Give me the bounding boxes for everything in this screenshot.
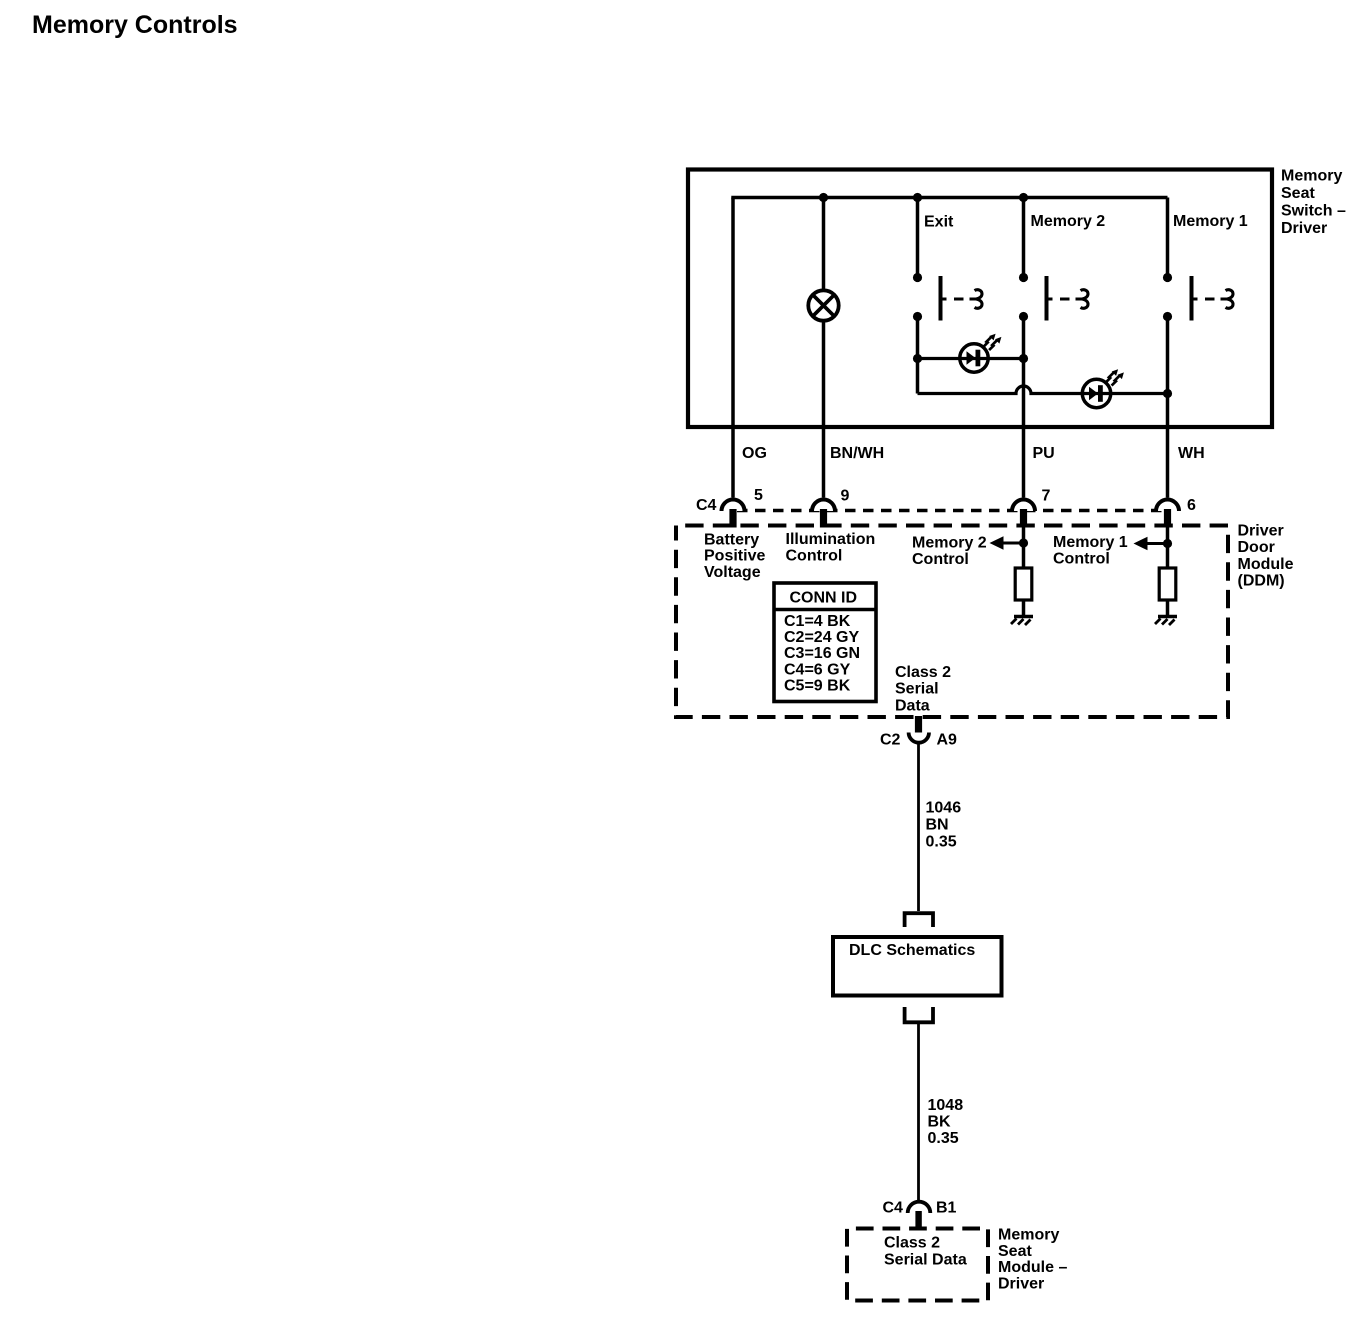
connector pin 9 [812, 500, 835, 528]
label Memory Seat Module - Driver [998, 1227, 1067, 1293]
svg-text:Control: Control [912, 551, 969, 568]
label Memory 2 Control [912, 535, 987, 569]
label Driver Door Module (DDM) [1238, 523, 1294, 590]
svg-text:Serial Data: Serial Data [884, 1252, 967, 1269]
wire WH to resistor [1166, 527, 1170, 568]
junction dot LED D2 wire at Memory 1 [1163, 389, 1172, 398]
svg-text:1048: 1048 [928, 1097, 964, 1114]
svg-text:Class 2: Class 2 [884, 1235, 940, 1252]
svg-text:Memory: Memory [998, 1227, 1059, 1244]
svg-text:C4: C4 [696, 497, 717, 514]
wire: LED D2 horizontal with hop over Memory 2 wire [918, 386, 1168, 393]
connector pin 6 [1156, 500, 1179, 528]
svg-text:Illumination: Illumination [786, 531, 876, 548]
wire PU to resistor [1022, 527, 1026, 568]
LED D2 (Memory 1 indicator) [1082, 369, 1124, 407]
svg-text:Module –: Module – [998, 1259, 1067, 1276]
DLC Schematics box [833, 937, 1002, 996]
svg-text:Serial: Serial [895, 681, 939, 698]
wire: Memory 1 switch vertical top [1166, 198, 1170, 278]
svg-text:C5=9 BK: C5=9 BK [784, 678, 851, 695]
wire: battery rail left vertical [731, 198, 735, 498]
svg-text:C4=6 GY: C4=6 GY [784, 661, 851, 678]
svg-text:6: 6 [1187, 497, 1196, 514]
wire label 1048 BK 0.35 [928, 1097, 964, 1147]
label Battery Positive Voltage [704, 532, 765, 582]
label Memory Seat Switch - Driver [1281, 168, 1346, 238]
off-page bracket top [905, 913, 933, 927]
switch SW Memory 1 armature [1192, 276, 1234, 321]
label Illumination Control [786, 531, 876, 565]
svg-text:Control: Control [786, 548, 843, 565]
svg-text:9: 9 [841, 488, 850, 505]
svg-text:C1=4 BK: C1=4 BK [784, 613, 851, 630]
wire 1048 BK [917, 1024, 920, 1202]
svg-text:BK: BK [928, 1114, 952, 1131]
svg-text:Memory 1: Memory 1 [1173, 213, 1248, 230]
wire: LED D1 horizontal [918, 357, 1024, 360]
svg-text:A9: A9 [937, 732, 958, 749]
LED D1 (Exit/Memory 2 indicator) [960, 334, 1002, 372]
junction dots LED D1 wire [913, 354, 922, 363]
svg-text:C2: C2 [880, 732, 901, 749]
node dot Memory 2 control [1019, 538, 1028, 547]
svg-text:(DDM): (DDM) [1238, 573, 1285, 590]
svg-text:Driver: Driver [1238, 523, 1284, 540]
wire: Exit switch vertical bottom [916, 317, 920, 394]
junction dots switch lower contacts [913, 312, 922, 321]
svg-text:DLC Schematics: DLC Schematics [849, 942, 975, 959]
svg-text:Seat: Seat [1281, 185, 1315, 202]
svg-text:Memory Controls: Memory Controls [32, 11, 238, 39]
svg-text:BN/WH: BN/WH [830, 445, 884, 462]
svg-text:Control: Control [1053, 551, 1110, 568]
Memory Seat Module dashed box [847, 1229, 988, 1301]
connector C4/B1 arc [908, 1202, 931, 1213]
svg-text:Driver: Driver [1281, 220, 1327, 237]
node dot Memory 1 control [1163, 539, 1172, 548]
svg-text:0.35: 0.35 [928, 1130, 959, 1147]
Driver Door Module dashed box [676, 526, 1228, 718]
connector C2/A9 cup [909, 733, 929, 743]
svg-text:Positive: Positive [704, 548, 765, 565]
label Class 2 Serial Data (MSM) [884, 1235, 967, 1269]
resistor R1 [1015, 568, 1032, 600]
svg-text:Seat: Seat [998, 1243, 1032, 1260]
svg-text:Module: Module [1238, 556, 1294, 573]
wire: Exit switch vertical top [916, 198, 920, 278]
svg-text:Memory 1: Memory 1 [1053, 534, 1128, 551]
svg-text:Class 2: Class 2 [895, 664, 951, 681]
junction dots top rail [819, 193, 828, 202]
arrow Memory 2 control [990, 536, 1024, 550]
ground G1 [1011, 617, 1033, 626]
svg-text:Data: Data [895, 698, 930, 715]
label Class 2 Serial Data (DDM) [895, 664, 951, 715]
wire: Memory 2 switch vertical top [1022, 198, 1026, 278]
svg-text:BN: BN [926, 817, 949, 834]
svg-text:Voltage: Voltage [704, 564, 761, 581]
svg-text:0.35: 0.35 [926, 834, 957, 851]
svg-text:Driver: Driver [998, 1275, 1044, 1292]
svg-text:C4: C4 [883, 1200, 904, 1217]
svg-text:C3=16 GN: C3=16 GN [784, 645, 860, 662]
connector row dashed line [737, 509, 1162, 513]
arrow Memory 1 control [1134, 537, 1168, 551]
wire resistor R2 to ground [1166, 600, 1170, 617]
lamp: illumination bulb [808, 290, 838, 320]
wire label 1046 BN 0.35 [926, 800, 962, 851]
svg-text:Switch –: Switch – [1281, 203, 1346, 220]
wire: Memory 1 switch vertical bottom [1166, 317, 1170, 498]
ground G2 [1155, 617, 1177, 626]
CONN ID table [774, 583, 876, 702]
svg-text:B1: B1 [936, 1200, 957, 1217]
switch SW Memory 2 armature [1047, 276, 1089, 321]
connector C4/B1 stub [915, 1211, 921, 1227]
resistor R2 [1159, 568, 1176, 600]
svg-text:CONN ID: CONN ID [790, 590, 858, 607]
svg-text:7: 7 [1042, 488, 1051, 505]
memory seat switch box [688, 170, 1272, 428]
junction dots switch upper contacts [913, 273, 922, 282]
svg-text:OG: OG [742, 445, 767, 462]
wire 1046 BN [917, 744, 920, 912]
connector pin 7 [1012, 500, 1035, 528]
svg-text:Exit: Exit [924, 214, 954, 231]
svg-text:Door: Door [1238, 539, 1275, 556]
svg-text:Battery: Battery [704, 532, 759, 549]
svg-text:Memory 2: Memory 2 [1031, 213, 1106, 230]
connector C2/A9 stub [915, 716, 922, 733]
wire: top common rail [731, 196, 1167, 200]
svg-text:C2=24 GY: C2=24 GY [784, 629, 859, 646]
wire: Memory 2 switch vertical bottom [1022, 317, 1026, 498]
wire: illumination lamp vertical [822, 198, 826, 498]
svg-text:Memory 2: Memory 2 [912, 535, 987, 552]
switch SW Exit armature [941, 276, 983, 321]
svg-text:1046: 1046 [926, 800, 962, 817]
off-page bracket bottom [905, 1007, 933, 1022]
wire resistor R1 to ground [1022, 600, 1026, 617]
connector C4 pin 5 [722, 500, 745, 528]
svg-text:WH: WH [1178, 445, 1205, 462]
svg-text:5: 5 [754, 487, 763, 504]
svg-text:PU: PU [1033, 445, 1055, 462]
label Memory 1 Control [1053, 534, 1128, 568]
svg-text:Memory: Memory [1281, 168, 1342, 185]
